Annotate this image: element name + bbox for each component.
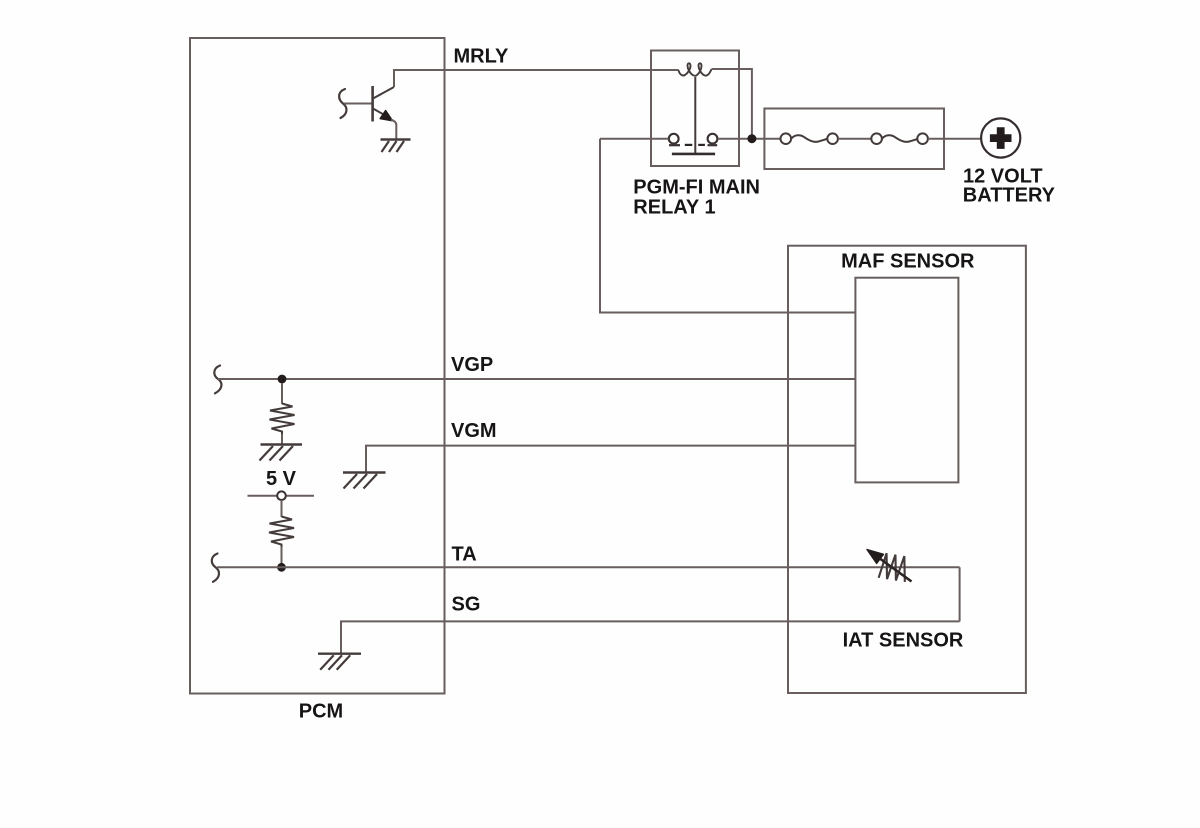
ground (R1) bbox=[260, 445, 303, 461]
svg-text:VGM: VGM bbox=[451, 420, 497, 442]
svg-text:RELAY 1: RELAY 1 bbox=[633, 197, 715, 219]
svg-text:VGP: VGP bbox=[451, 354, 493, 376]
ground (VGM) bbox=[343, 473, 386, 489]
relay coil bbox=[679, 63, 712, 75]
wire emitter to ground bbox=[391, 120, 396, 140]
junction dot TA bbox=[277, 563, 286, 572]
TA break squiggle bbox=[212, 554, 219, 582]
transistor Q1 emitter arrowhead bbox=[380, 111, 392, 121]
svg-text:PCM: PCM bbox=[299, 701, 343, 723]
MAF sensor inner box bbox=[855, 278, 958, 483]
relay armature plate bbox=[672, 153, 715, 156]
svg-text:BATTERY: BATTERY bbox=[963, 184, 1056, 206]
wire power feed to MAF bbox=[600, 139, 855, 313]
svg-text:5 V: 5 V bbox=[266, 468, 297, 490]
wire MRLY (collector to relay coil) bbox=[394, 70, 679, 87]
resistor R1 bbox=[281, 383, 283, 404]
5V node circle bbox=[277, 491, 286, 500]
battery bbox=[981, 118, 1020, 157]
transistor Q1 base wire bbox=[344, 103, 372, 105]
5V supply line bbox=[248, 495, 315, 497]
PCM box bbox=[190, 38, 445, 694]
svg-text:TA: TA bbox=[452, 544, 477, 566]
svg-text:IAT SENSOR: IAT SENSOR bbox=[843, 630, 964, 652]
VGP break squiggle bbox=[214, 366, 221, 394]
fuse F2 bbox=[871, 133, 928, 144]
junction dot bbox=[747, 134, 756, 143]
wire relay switch left bbox=[600, 138, 668, 140]
fuse box bbox=[764, 109, 944, 170]
wire fuse to battery bbox=[928, 138, 981, 140]
wire SG bbox=[341, 621, 960, 653]
relay armature link bbox=[694, 77, 696, 154]
ground (transistor emitter) bbox=[381, 140, 411, 153]
wire relay coil return bbox=[712, 69, 752, 139]
IAT loop right edge bbox=[959, 567, 961, 621]
relay contact dashes bbox=[685, 144, 705, 146]
wire TA bbox=[217, 566, 960, 568]
svg-text:MRLY: MRLY bbox=[454, 46, 509, 68]
fuse F1 bbox=[781, 133, 838, 144]
ground (SG) bbox=[318, 654, 361, 670]
svg-text:MAF SENSOR: MAF SENSOR bbox=[841, 251, 975, 273]
IAT thermistor bbox=[879, 553, 909, 582]
junction dot VGP bbox=[278, 375, 287, 384]
wire between fuses bbox=[838, 138, 871, 140]
wire relay switch right to fuse bbox=[718, 138, 781, 140]
svg-text:PGM-FI MAIN: PGM-FI MAIN bbox=[633, 177, 760, 199]
resistor R2 bbox=[281, 500, 283, 517]
relay right contact bbox=[708, 134, 718, 144]
transistor Q1 bbox=[373, 86, 394, 122]
transistor Q1 base break squiggle bbox=[339, 89, 346, 118]
wire VGP bbox=[218, 378, 855, 380]
VGM wire bbox=[366, 446, 855, 472]
relay left contact bbox=[669, 134, 679, 144]
svg-text:SG: SG bbox=[452, 594, 481, 616]
MAF sensor outer box bbox=[788, 246, 1026, 693]
relay K1 box bbox=[651, 51, 739, 167]
